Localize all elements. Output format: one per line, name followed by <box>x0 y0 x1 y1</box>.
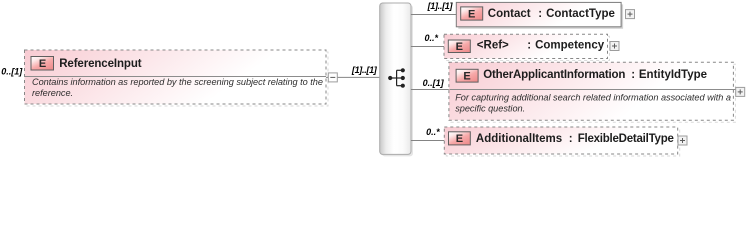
expand box (plus) Ref <box>610 42 619 51</box>
svg-text:Contains information as report: Contains information as reported by the … <box>32 77 323 87</box>
svg-text::: : <box>538 8 542 20</box>
svg-text:0..*: 0..* <box>426 127 440 137</box>
svg-text:ReferenceInput: ReferenceInput <box>59 58 142 70</box>
svg-text:[1]..[1]: [1]..[1] <box>427 1 454 11</box>
svg-text:0..*: 0..* <box>424 33 438 43</box>
expand box (plus) Contact <box>626 10 635 19</box>
svg-text:Contact: Contact <box>488 8 531 20</box>
svg-text:specific question.: specific question. <box>455 104 525 114</box>
svg-text:0..[1]: 0..[1] <box>1 67 23 77</box>
svg-text:<Ref>: <Ref> <box>477 39 509 51</box>
element AdditionalItems (box) <box>444 127 679 156</box>
element Contact (box) <box>456 2 623 28</box>
annotation text (ReferenceInput) <box>32 77 323 98</box>
label Ref : Competency <box>477 39 605 51</box>
annotation text (OtherApplicantInformation) <box>455 93 731 114</box>
label AdditionalItems : FlexibleDetailType <box>476 133 674 145</box>
wire to Ref <box>411 46 444 48</box>
label OtherApplicantInformation : EntityIdType <box>483 69 707 81</box>
svg-text:E: E <box>468 8 475 20</box>
svg-text::: : <box>631 69 635 81</box>
svg-text:[1]..[1]: [1]..[1] <box>351 65 378 75</box>
sequence icon (dots) <box>388 68 405 88</box>
svg-text:Competency: Competency <box>535 39 605 51</box>
element icon E (ReferenceInput) <box>31 57 54 71</box>
expand box (plus) OtherApplicantInformation <box>736 87 745 96</box>
wire to OtherApplicantInformation <box>411 89 449 91</box>
wire to AdditionalItems <box>411 140 445 142</box>
element ReferenceInput (box) <box>25 50 329 106</box>
svg-text:EntityIdType: EntityIdType <box>639 69 707 81</box>
element icon E (Ref) <box>448 40 470 53</box>
svg-text:E: E <box>39 58 46 70</box>
svg-text:ContactType: ContactType <box>546 8 615 20</box>
svg-text:reference.: reference. <box>32 88 73 98</box>
element icon E (AdditionalItems) <box>449 132 471 145</box>
sequence compositor bar <box>380 3 413 156</box>
expand box (plus) AdditionalItems <box>678 136 687 145</box>
label Contact : ContactType <box>488 8 615 20</box>
element icon E (Contact) <box>461 7 483 21</box>
svg-text:FlexibleDetailType: FlexibleDetailType <box>578 133 674 145</box>
svg-text:0..[1]: 0..[1] <box>423 78 445 88</box>
svg-text::: : <box>569 133 573 145</box>
element Ref (box) <box>444 34 610 60</box>
svg-text::: : <box>527 39 531 51</box>
svg-text:OtherApplicantInformation: OtherApplicantInformation <box>483 69 625 81</box>
wire from ReferenceInput to sequence bar <box>326 76 380 78</box>
element icon E (OtherApplicantInformation) <box>456 69 478 82</box>
svg-text:E: E <box>463 71 470 83</box>
wire to Contact <box>411 14 457 16</box>
element OtherApplicantInformation (box) <box>449 62 736 122</box>
svg-text:AdditionalItems: AdditionalItems <box>476 133 562 145</box>
svg-text:E: E <box>456 133 463 145</box>
collapse box (minus) on ReferenceInput <box>328 73 337 82</box>
svg-text:E: E <box>456 41 463 53</box>
svg-text:For capturing additional searc: For capturing additional search related … <box>455 93 731 103</box>
